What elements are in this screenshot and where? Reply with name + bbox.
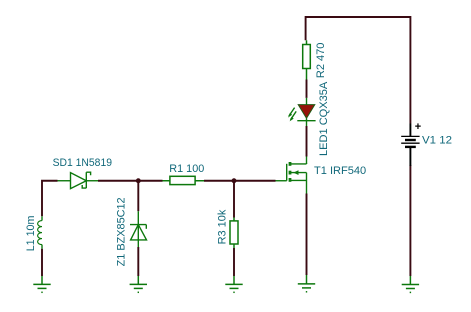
node junction dot R3 branch xyxy=(232,178,237,183)
wire diode cathode to Z1 junction to R1 xyxy=(98,180,163,182)
svg-text:R1 100: R1 100 xyxy=(169,163,204,175)
wire top rail from LED branch to battery branch xyxy=(306,17,411,124)
ground (R3) xyxy=(225,276,242,292)
svg-text:Z1 BZX85C12: Z1 BZX85C12 xyxy=(115,197,127,266)
wire main rail left segment with corner down to L1 xyxy=(42,181,58,217)
wire R1 right to R3 junction to MOSFET gate xyxy=(204,180,276,182)
diode SD1 1N5819 (Schottky) xyxy=(58,172,99,188)
transistor T1 IRF540 (N-MOSFET) xyxy=(276,157,307,194)
svg-text:T1 IRF540: T1 IRF540 xyxy=(314,165,366,177)
ground (T1 source) xyxy=(298,275,315,292)
ground (L1) xyxy=(33,276,50,292)
wire R3 branch down xyxy=(233,181,235,218)
resistor R2 470 xyxy=(303,40,311,79)
svg-text:R3 10k: R3 10k xyxy=(216,209,228,244)
svg-text:L1 10m: L1 10m xyxy=(25,216,37,252)
LED light arrows xyxy=(289,108,295,116)
zener Z1 BZX85C12 xyxy=(130,211,147,247)
svg-text:+: + xyxy=(415,121,421,133)
wire Z1 lower xyxy=(137,247,139,276)
LED1 CQX35A xyxy=(288,98,316,126)
wire MOSFET drain to LED xyxy=(306,126,308,157)
ground (Z1) xyxy=(130,276,147,292)
wire L1 lower xyxy=(41,249,43,276)
svg-text:V1 12: V1 12 xyxy=(422,134,452,146)
svg-text:R2 470: R2 470 xyxy=(315,43,327,79)
inductor L1 xyxy=(38,216,42,248)
node junction dot Z1 branch xyxy=(136,178,141,183)
resistor R1 100 xyxy=(163,176,205,184)
resistor R3 10k xyxy=(230,218,238,249)
wire Z1 branch down xyxy=(137,181,139,211)
svg-text:SD1 1N5819: SD1 1N5819 xyxy=(53,157,112,169)
wire MOSFET source down xyxy=(306,194,308,276)
wire LED top to R2 xyxy=(306,80,308,98)
ground (V1) xyxy=(402,276,419,292)
svg-text:LED1 CQX35A: LED1 CQX35A xyxy=(318,81,330,156)
wire R3 lower xyxy=(233,248,235,276)
battery V1 12 xyxy=(401,124,419,167)
wire battery lower xyxy=(409,165,411,276)
